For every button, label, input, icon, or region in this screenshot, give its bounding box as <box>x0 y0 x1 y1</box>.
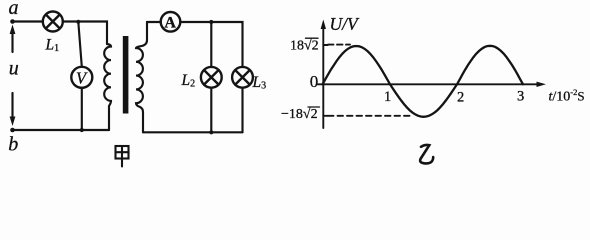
wire bottom right <box>143 131 243 133</box>
tick -18sqrt2 <box>323 115 328 117</box>
svg-text:A: A <box>164 15 176 32</box>
label 18sqrt2 <box>290 38 319 53</box>
wire L2 branch <box>210 22 212 67</box>
junction L2 top <box>209 20 213 24</box>
wire bottom left <box>13 129 110 131</box>
t axis <box>318 82 547 87</box>
dashed line top <box>328 44 350 46</box>
wire V to bottom <box>81 88 83 130</box>
junction V bottom <box>80 128 84 132</box>
svg-text:t/10-2S: t/10-2S <box>549 87 585 105</box>
node b <box>10 128 15 133</box>
source down arrow <box>10 93 16 126</box>
secondary coil <box>136 22 147 132</box>
wire A to L3 corner <box>180 22 242 67</box>
svg-text:−18√2: −18√2 <box>281 107 318 122</box>
wire a to L1 <box>13 20 43 22</box>
label -18sqrt2 <box>281 107 320 122</box>
wire V branch <box>78 22 82 67</box>
U axis <box>321 20 326 129</box>
svg-text:u: u <box>9 58 19 80</box>
lamp L2 <box>201 67 222 88</box>
svg-text:L3: L3 <box>252 74 267 92</box>
primary coil <box>104 44 111 130</box>
svg-text:V: V <box>76 69 88 88</box>
ammeter A <box>161 12 181 32</box>
svg-text:2: 2 <box>457 90 464 106</box>
wire L3 bottom <box>241 88 243 133</box>
sine curve <box>323 46 524 117</box>
lamp L1 <box>43 12 63 32</box>
node a <box>10 19 15 24</box>
label yi <box>420 145 433 164</box>
transformer core <box>123 36 129 114</box>
wire L2 bottom <box>210 88 212 133</box>
source up arrow <box>10 25 16 53</box>
svg-text:b: b <box>8 134 18 156</box>
svg-text:a: a <box>9 0 19 19</box>
svg-text:L1: L1 <box>45 37 60 55</box>
svg-text:0: 0 <box>310 72 319 91</box>
svg-text:U/V: U/V <box>330 14 361 34</box>
wire secondary top to A <box>147 21 161 23</box>
svg-text:1: 1 <box>384 89 391 105</box>
junction V branch <box>76 20 80 24</box>
label jia <box>116 146 129 167</box>
svg-text:L2: L2 <box>181 72 196 90</box>
dashed line bottom <box>328 115 413 117</box>
junction L2 bottom <box>209 130 213 134</box>
svg-text:3: 3 <box>517 89 524 105</box>
lamp L3 <box>232 67 253 88</box>
voltmeter V <box>71 67 92 88</box>
svg-text:18√2: 18√2 <box>290 38 319 53</box>
wire L1 to primary top corner <box>63 22 107 45</box>
tick 18sqrt2 <box>323 44 328 46</box>
